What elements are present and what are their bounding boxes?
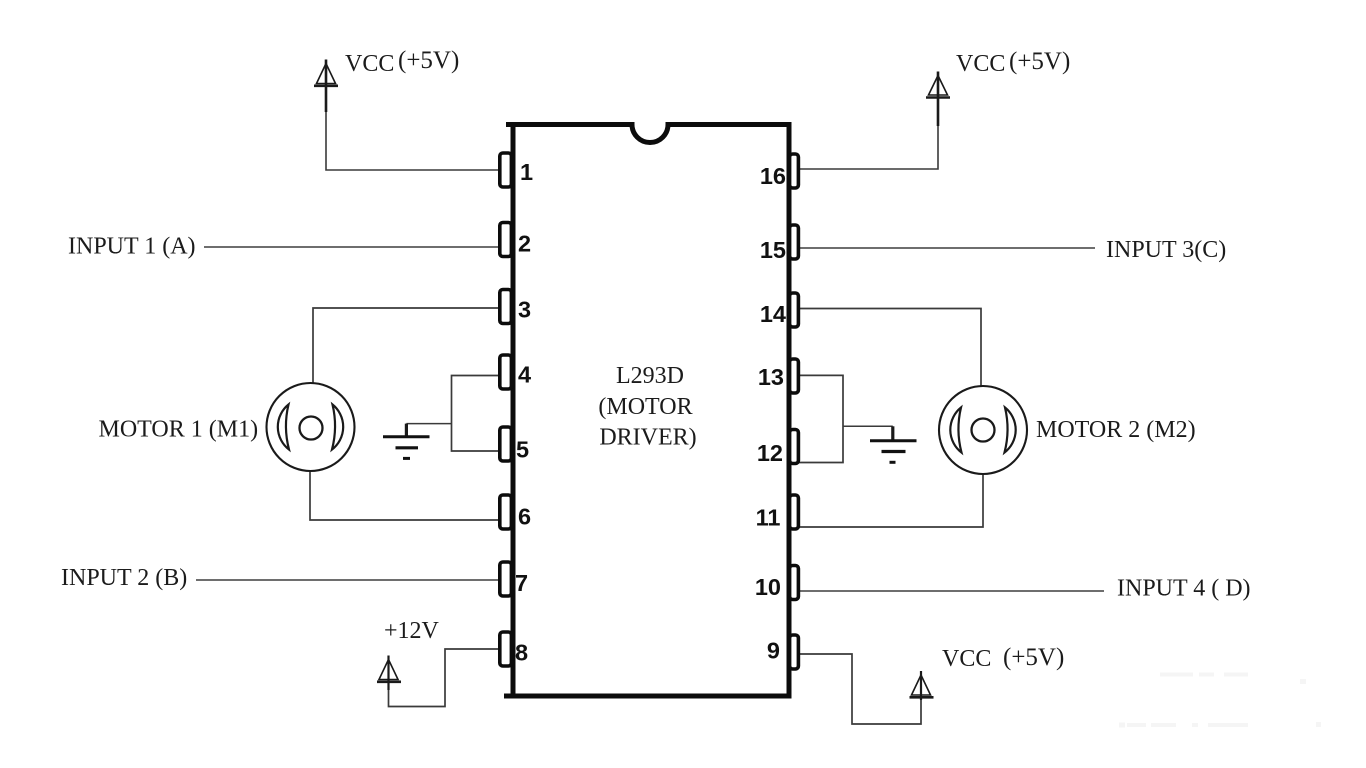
svg-text:5: 5 [516, 437, 529, 463]
wire INPUT 3 to pin 15 [799, 247, 1095, 249]
ground symbol left [383, 437, 430, 459]
pin 12 number [757, 440, 783, 466]
wire ground 1 connector [406, 424, 451, 437]
wire pin 9 to VCC bottom-right [799, 654, 921, 724]
pin 14 [790, 293, 799, 327]
svg-text:14: 14 [760, 301, 786, 327]
pin 4 number [518, 362, 531, 388]
pin 9 number [767, 638, 780, 664]
wire VCC top-left to pin 1 [326, 110, 500, 170]
svg-text:(MOTOR: (MOTOR [598, 394, 692, 420]
svg-text:12: 12 [757, 440, 783, 466]
ground symbol right [870, 441, 917, 463]
wire INPUT 4 to pin 10 [799, 590, 1104, 592]
pin 2 [500, 223, 512, 257]
pin 2 number [518, 231, 531, 257]
wire pin 14 to motor 2 top [799, 309, 981, 391]
svg-text:8: 8 [515, 640, 528, 666]
pin 11 [790, 495, 799, 529]
wire motor 1 bottom to pin 6 [310, 465, 500, 520]
pin 8 number [515, 640, 528, 666]
wire pin 3 to motor 1 top [313, 308, 500, 389]
svg-text:MOTOR 2 (M2): MOTOR 2 (M2) [1036, 417, 1196, 443]
svg-text:VCC: VCC [956, 51, 1005, 77]
svg-text:11: 11 [756, 505, 781, 531]
wire ground 2 connector [843, 426, 893, 439]
svg-text:DRIVER): DRIVER) [599, 424, 696, 450]
wire INPUT 1 to pin 2 [204, 246, 500, 248]
wire INPUT 2 to pin 7 [196, 579, 500, 581]
power symbol VCC (+5V) top-right arrow [926, 72, 950, 127]
net label INPUT 2 (B) [61, 565, 187, 591]
svg-text:INPUT 2 (B): INPUT 2 (B) [61, 565, 187, 591]
pin 5 [500, 427, 512, 461]
pin 6 number [518, 504, 531, 530]
wire +12V arrow to pin 8 [389, 649, 501, 707]
pin 1 [500, 153, 512, 187]
motor M1 symbol [267, 383, 355, 471]
pin 7 [500, 562, 512, 596]
svg-text:INPUT 4 ( D): INPUT 4 ( D) [1117, 576, 1251, 602]
net label +12V [384, 618, 440, 644]
svg-text:(+5V): (+5V) [1009, 48, 1070, 75]
pin 8 [500, 632, 512, 666]
pin 10 number [755, 574, 781, 600]
power symbol VCC (+5V) bottom-right arrow [910, 671, 934, 700]
pin 12 [790, 430, 799, 464]
motor M2 symbol [939, 386, 1027, 474]
net label VCC (+5V) top-left [345, 47, 459, 77]
svg-text:15: 15 [760, 237, 786, 263]
pin 16 [790, 154, 799, 188]
pin 4 [500, 355, 512, 389]
net label VCC (+5V) top-right [956, 48, 1070, 77]
svg-text:VCC: VCC [345, 51, 394, 77]
net label INPUT 1 (A) [68, 234, 196, 260]
pin 1 number [520, 159, 533, 185]
pin 6 [500, 495, 512, 529]
wire motor 2 bottom to pin 11 [799, 469, 983, 527]
wire bracket pins 4 and 5 [452, 376, 501, 452]
svg-text:+12V: +12V [384, 618, 440, 644]
pin 14 number [760, 301, 786, 327]
svg-text:16: 16 [760, 163, 786, 189]
svg-text:4: 4 [518, 362, 531, 388]
svg-text:7: 7 [515, 570, 528, 596]
svg-text:13: 13 [758, 364, 784, 390]
svg-text:6: 6 [518, 504, 531, 530]
pin 3 [500, 290, 512, 324]
svg-text:(+5V): (+5V) [1003, 644, 1064, 671]
wire bracket pins 13 and 12 [799, 375, 843, 462]
IC U1 L293D body with notch [504, 125, 789, 697]
IC part label L293D (MOTOR DRIVER) [598, 363, 696, 450]
pin 13 [790, 359, 799, 393]
pin 11 number [756, 505, 781, 531]
pin 9 [790, 635, 799, 669]
pin 15 number [760, 237, 786, 263]
power symbol +12V arrow [377, 656, 401, 691]
svg-text:(+5V): (+5V) [398, 47, 459, 74]
pin 13 number [758, 364, 784, 390]
svg-text:MOTOR 1 (M1): MOTOR 1 (M1) [99, 417, 259, 443]
pin 3 number [518, 297, 531, 323]
net label VCC (+5V) bottom-right [942, 644, 1064, 672]
svg-text:L293D: L293D [616, 363, 684, 389]
pin 16 number [760, 163, 786, 189]
svg-text:1: 1 [520, 159, 533, 185]
pin 15 [790, 225, 799, 259]
pin 5 number [516, 437, 529, 463]
pin 10 [790, 566, 799, 600]
svg-text:VCC: VCC [942, 646, 991, 672]
net label INPUT 4 ( D) [1117, 576, 1251, 602]
component label MOTOR 2 (M2) [1036, 417, 1196, 443]
svg-text:3: 3 [518, 297, 531, 323]
svg-text:10: 10 [755, 574, 781, 600]
svg-text:9: 9 [767, 638, 780, 664]
svg-text:INPUT 3(C): INPUT 3(C) [1106, 237, 1226, 263]
wire VCC top-right to pin 16 [799, 124, 938, 169]
component label MOTOR 1 (M1) [99, 417, 259, 443]
svg-text:INPUT 1 (A): INPUT 1 (A) [68, 234, 196, 260]
svg-text:2: 2 [518, 231, 531, 257]
net label INPUT 3(C) [1106, 237, 1226, 263]
power symbol VCC (+5V) top-left arrow [314, 60, 338, 113]
pin 7 number [515, 570, 528, 596]
